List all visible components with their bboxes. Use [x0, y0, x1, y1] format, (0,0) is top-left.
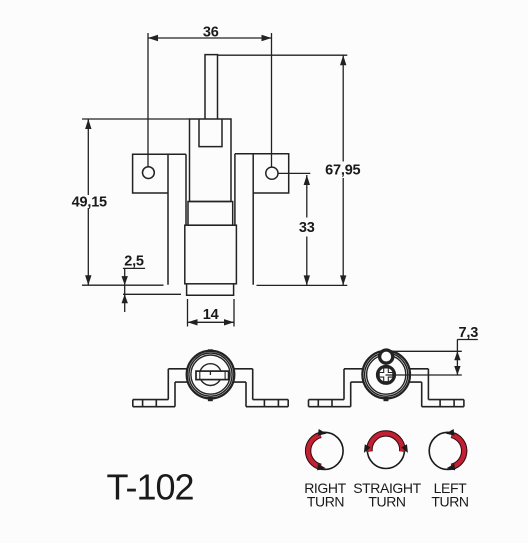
svg-text:36: 36 — [203, 24, 219, 40]
svg-text:T-102: T-102 — [107, 467, 194, 508]
svg-text:2,5: 2,5 — [124, 254, 144, 270]
svg-text:33: 33 — [299, 220, 315, 236]
svg-text:TURN: TURN — [307, 494, 344, 510]
svg-text:49,15: 49,15 — [72, 194, 107, 210]
svg-text:TURN: TURN — [431, 494, 468, 510]
svg-text:67,95: 67,95 — [325, 163, 360, 179]
svg-text:TURN: TURN — [368, 494, 405, 510]
svg-text:14: 14 — [203, 307, 219, 323]
svg-text:7,3: 7,3 — [459, 325, 479, 341]
